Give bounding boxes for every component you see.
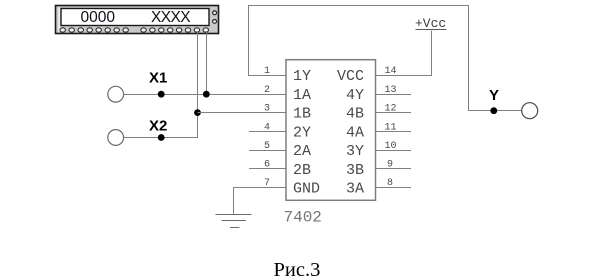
pin 6 stub <box>249 168 286 170</box>
svg-text:14: 14 <box>385 66 397 77</box>
junction dot on X1 wire <box>158 91 165 98</box>
display connector holes group 2 <box>141 28 209 32</box>
svg-text:6: 6 <box>264 160 270 171</box>
junction node B (to pin 3 wire) <box>194 109 201 116</box>
svg-text:Y: Y <box>489 87 499 104</box>
pin 11 stub <box>376 131 412 133</box>
svg-text:4B: 4B <box>346 106 364 123</box>
svg-text:2Y: 2Y <box>293 125 311 142</box>
svg-text:2A: 2A <box>293 143 311 160</box>
pin 12 stub <box>376 112 412 114</box>
wire node B to pin 3 <box>198 112 287 114</box>
junction dot on X2 wire <box>158 134 165 141</box>
svg-text:4: 4 <box>264 122 270 133</box>
wire Vcc to pin 14 <box>376 31 432 76</box>
wire X1 to pin 2 <box>124 94 286 96</box>
power +Vcc symbol <box>415 16 447 31</box>
pin 7 wire to ground <box>234 188 287 216</box>
svg-text:+Vcc: +Vcc <box>415 16 446 31</box>
svg-text:Рис.3: Рис.3 <box>274 259 321 278</box>
svg-text:2B: 2B <box>293 162 311 179</box>
junction node A (display to X1 wire) <box>203 91 210 98</box>
svg-text:4Y: 4Y <box>346 87 364 104</box>
svg-text:7402: 7402 <box>284 209 322 227</box>
IC U1 7402 body <box>286 60 376 201</box>
svg-text:VCC: VCC <box>337 68 364 85</box>
svg-text:10: 10 <box>385 141 397 152</box>
svg-text:X2: X2 <box>149 118 167 135</box>
svg-text:XXXX: XXXX <box>151 9 191 26</box>
terminal X1 <box>108 86 124 102</box>
svg-text:7: 7 <box>264 178 270 189</box>
terminal Y <box>522 103 538 119</box>
pin 9 stub <box>376 168 412 170</box>
svg-text:2: 2 <box>264 85 270 96</box>
svg-text:3Y: 3Y <box>346 143 364 160</box>
wire from display hole to node A (vertical) <box>206 32 208 95</box>
display screen <box>61 9 209 26</box>
svg-text:12: 12 <box>385 103 397 114</box>
svg-text:3B: 3B <box>346 162 364 179</box>
svg-text:1Y: 1Y <box>293 68 311 85</box>
pin 13 stub <box>376 94 412 96</box>
pin 8 stub <box>376 187 412 189</box>
svg-text:3A: 3A <box>346 180 364 197</box>
pin 5 stub <box>249 150 286 152</box>
svg-text:13: 13 <box>385 85 397 96</box>
svg-text:1: 1 <box>264 66 270 77</box>
svg-text:11: 11 <box>385 122 397 133</box>
pin 10 stub <box>376 150 412 152</box>
svg-text:GND: GND <box>293 180 320 197</box>
ground symbol <box>216 215 252 228</box>
svg-text:5: 5 <box>264 141 270 152</box>
svg-text:1B: 1B <box>293 106 311 123</box>
display connector holes group 1 <box>60 28 128 32</box>
terminal X2 <box>108 130 124 146</box>
svg-text:9: 9 <box>387 160 393 171</box>
svg-text:3: 3 <box>264 103 270 114</box>
display side buttons <box>213 11 217 23</box>
wire pin 1 to output Y (up over IC and down) <box>249 6 522 111</box>
svg-text:0000: 0000 <box>81 9 116 26</box>
wire from display hole to node B (vertical) <box>197 32 199 138</box>
svg-text:8: 8 <box>387 178 393 189</box>
pin 4 stub <box>249 131 286 133</box>
svg-text:4A: 4A <box>346 125 364 142</box>
wire X2 horizontal <box>124 137 198 139</box>
indicator display unit (word generator) <box>56 6 219 34</box>
svg-text:X1: X1 <box>149 70 167 87</box>
pin 1 stub <box>248 75 286 77</box>
junction dot on Y wire <box>490 107 497 114</box>
svg-text:1A: 1A <box>293 87 311 104</box>
